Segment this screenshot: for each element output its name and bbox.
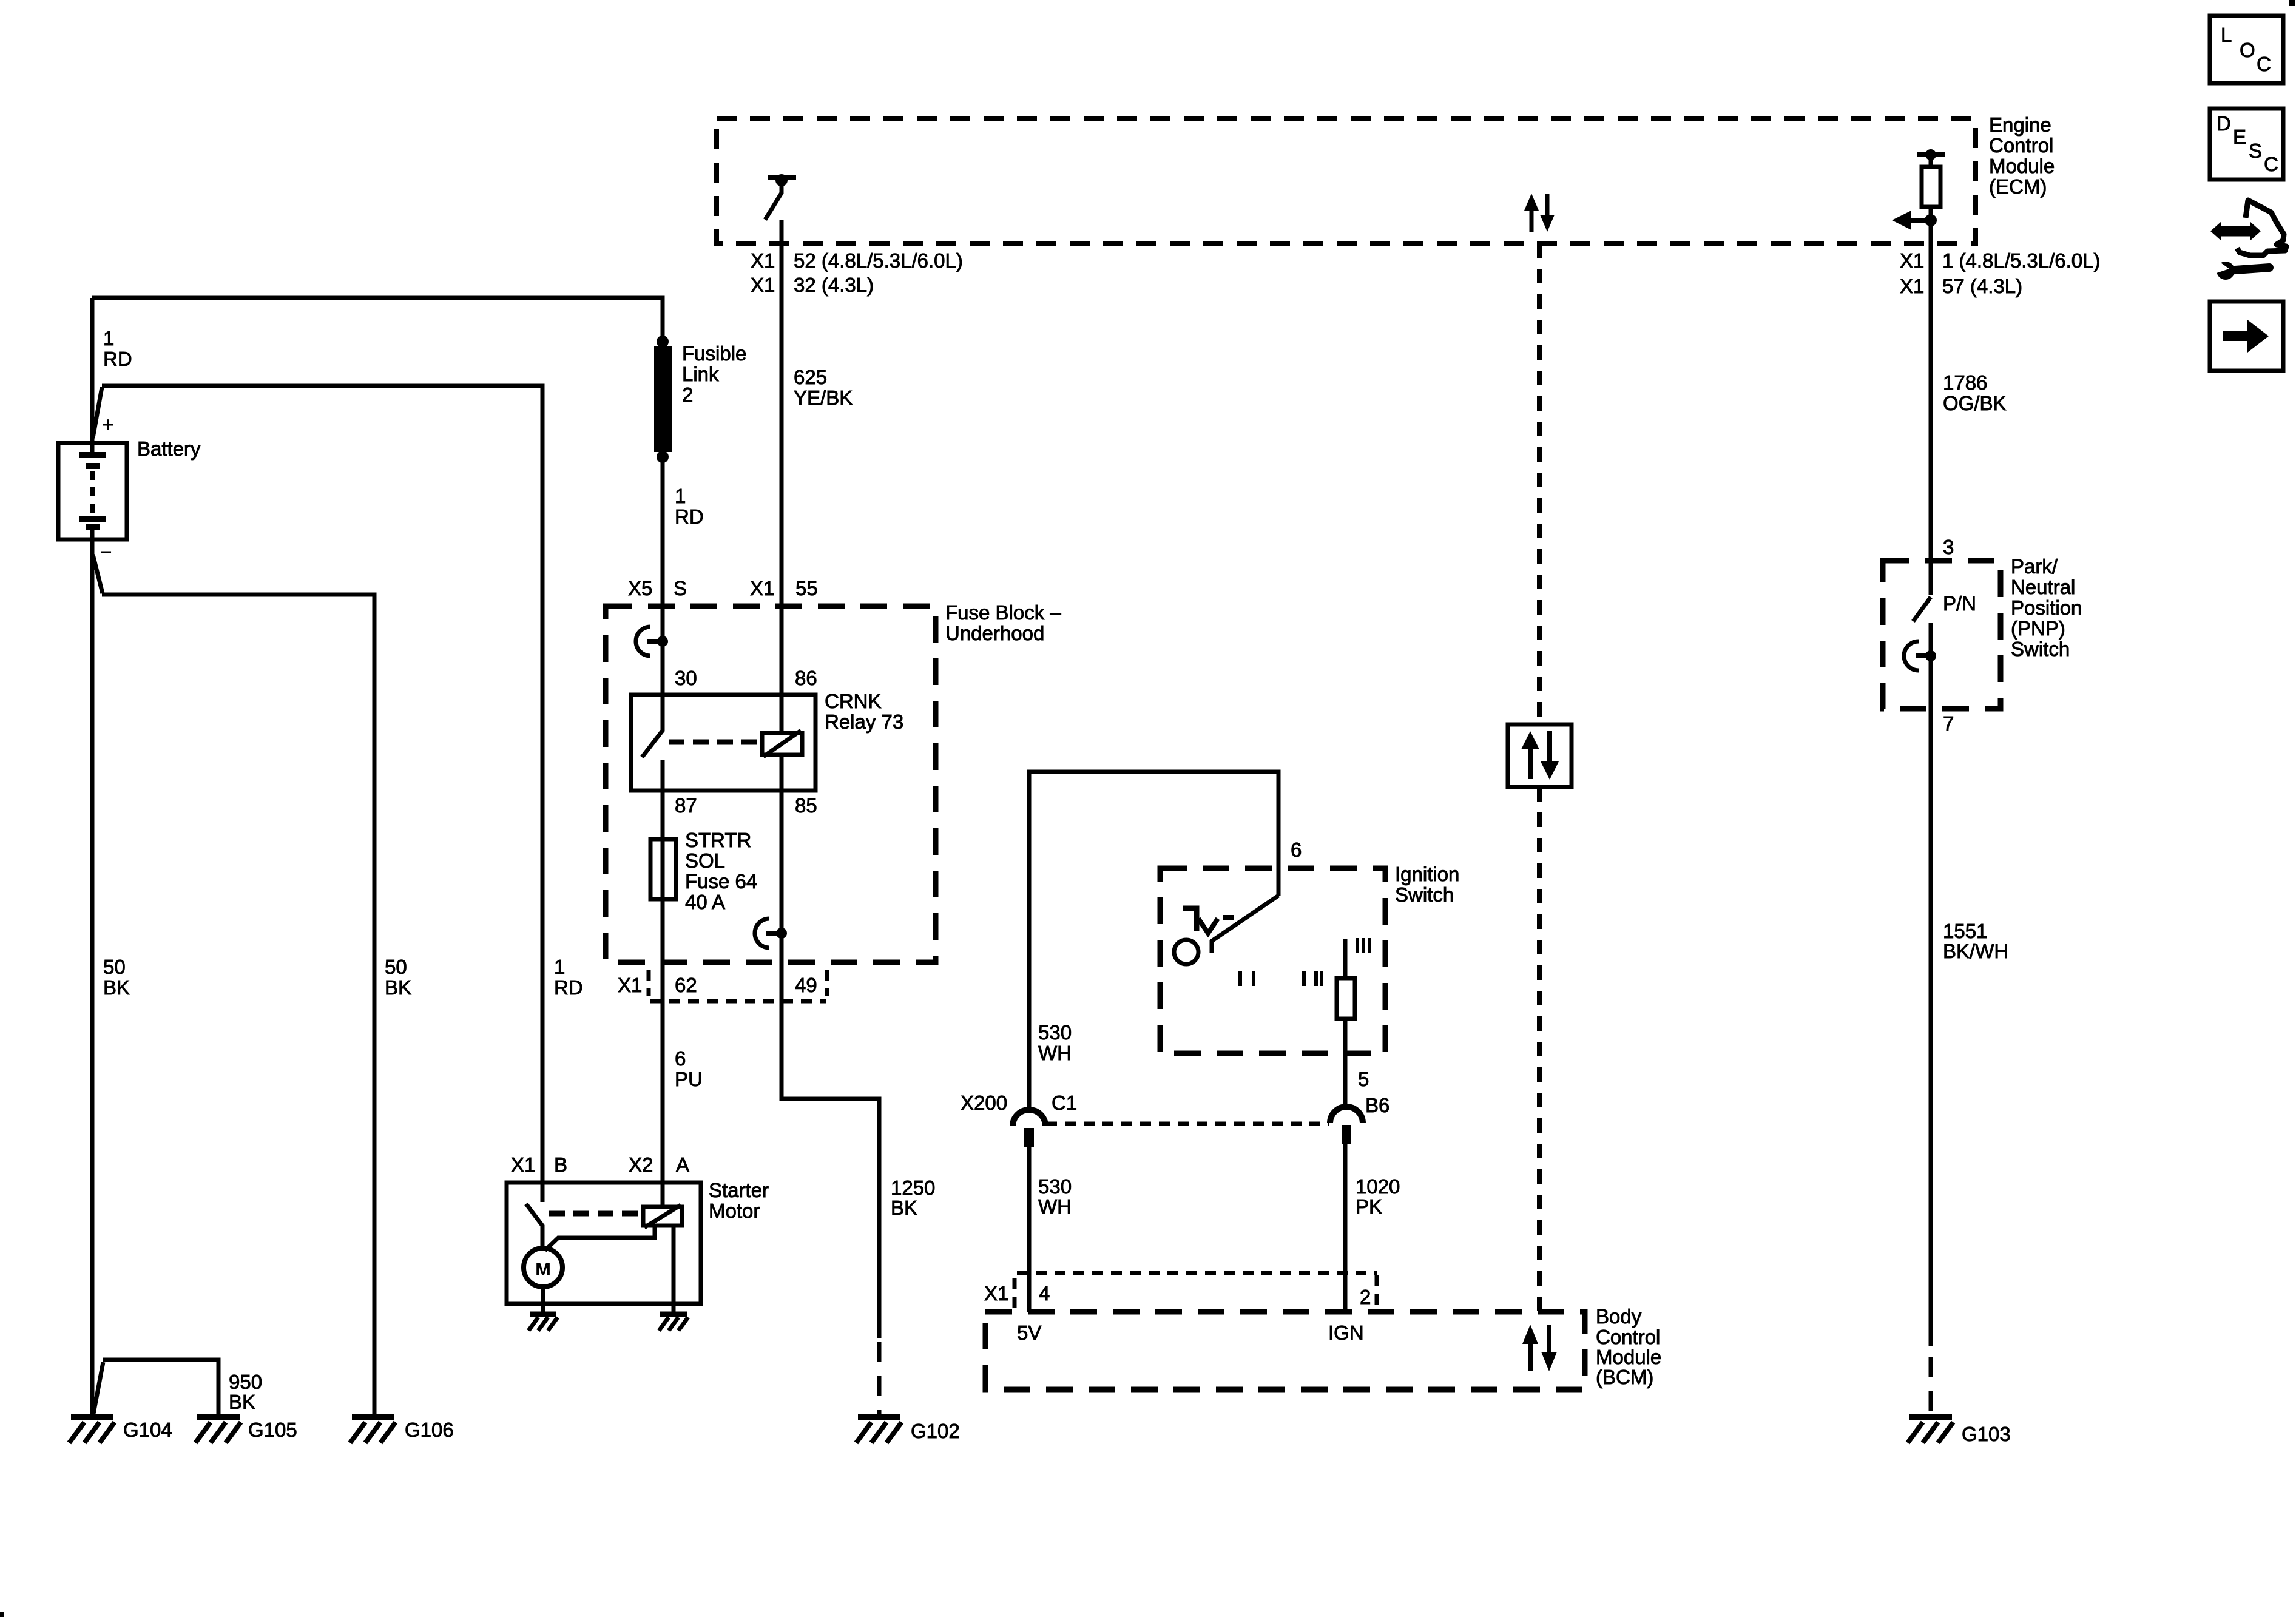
svg-text:5V: 5V (1017, 1322, 1041, 1344)
ECM dashed box (717, 119, 1976, 243)
svg-text:7: 7 (1943, 712, 1954, 735)
svg-text:Fuse 64: Fuse 64 (685, 870, 757, 893)
svg-text:50: 50 (385, 956, 407, 978)
fuse block underhood dashed box (606, 606, 936, 962)
svg-text:X1: X1 (750, 577, 774, 599)
svg-text:5: 5 (1358, 1068, 1369, 1090)
svg-text:86: 86 (795, 667, 817, 689)
svg-text:X5: X5 (628, 577, 652, 599)
svg-text:X1: X1 (984, 1282, 1008, 1305)
PNP switch dashed box (1883, 561, 2001, 709)
X200 dotted connector line (1046, 1122, 1329, 1126)
svg-text:G106: G106 (405, 1419, 454, 1441)
svg-text:1: 1 (554, 956, 565, 978)
svg-text:G102: G102 (911, 1420, 960, 1442)
relay actuator dashed link (669, 740, 760, 745)
connector C1 (1013, 1110, 1045, 1147)
svg-text:PU: PU (675, 1068, 703, 1090)
svg-text:O: O (2240, 39, 2255, 61)
ignition position ticks II (1304, 971, 1322, 986)
svg-text:Relay 73: Relay 73 (825, 711, 903, 733)
svg-text:B6: B6 (1365, 1094, 1389, 1116)
svg-text:OG/BK: OG/BK (1943, 392, 2007, 414)
ECM input arrow (1892, 211, 1937, 230)
serial data dashed line lower (1537, 787, 1542, 1312)
svg-text:30: 30 (675, 667, 697, 689)
svg-text:57 (4.3L): 57 (4.3L) (1942, 275, 2022, 297)
svg-text:C: C (2264, 153, 2278, 175)
svg-text:1020: 1020 (1356, 1175, 1400, 1198)
arrow box arrows (1521, 731, 1559, 780)
fusible link 2 (657, 336, 669, 348)
relay coil (762, 731, 802, 757)
page corner mark top right (2289, 0, 2295, 6)
ground G105 (195, 1417, 241, 1443)
icon DESC box (2210, 109, 2283, 180)
starter motor box (507, 1183, 701, 1304)
svg-text:(BCM): (BCM) (1596, 1366, 1653, 1388)
serial data arrow box (1508, 724, 1572, 787)
svg-text:Neutral: Neutral (2011, 576, 2075, 598)
svg-text:Engine: Engine (1989, 113, 2051, 136)
svg-text:1 (4.8L/5.3L/6.0L): 1 (4.8L/5.3L/6.0L) (1942, 249, 2101, 272)
svg-text:32 (4.3L): 32 (4.3L) (794, 274, 874, 296)
starter actuator dashed link (549, 1211, 640, 1217)
svg-text:STRTR: STRTR (685, 829, 751, 851)
starter solenoid coil (643, 1205, 682, 1227)
svg-text:YE/BK: YE/BK (794, 387, 853, 409)
icon LOC box (2210, 16, 2283, 83)
svg-text:6: 6 (675, 1047, 686, 1070)
svg-text:Module: Module (1989, 155, 2055, 177)
svg-text:1250: 1250 (891, 1176, 935, 1199)
icon wrench (2213, 258, 2269, 280)
svg-text:BK: BK (385, 976, 411, 999)
svg-text:P/N: P/N (1943, 592, 1976, 615)
svg-text:M: M (535, 1258, 551, 1280)
BCM serial data arrows (1522, 1325, 1557, 1371)
ground G102 (856, 1417, 902, 1443)
svg-text:E: E (2233, 126, 2246, 148)
connector hook on 49 wire (755, 919, 787, 948)
svg-text:Fuse Block –: Fuse Block – (945, 601, 1061, 624)
svg-text:G105: G105 (248, 1419, 297, 1441)
svg-text:1: 1 (103, 327, 114, 349)
svg-text:85: 85 (795, 794, 817, 817)
icon harness double arrow (2210, 221, 2261, 241)
svg-text:49: 49 (795, 974, 817, 996)
svg-text:1: 1 (675, 485, 686, 507)
ECM internal crank output switch (765, 174, 796, 220)
PNP switch blade (1913, 597, 1931, 621)
wire: coil to motor link (545, 1226, 655, 1251)
svg-text:CRNK: CRNK (825, 690, 882, 712)
svg-text:Control: Control (1596, 1326, 1660, 1348)
ignition switch dashed box (1160, 868, 1385, 1053)
svg-text:S: S (674, 577, 687, 599)
svg-text:G104: G104 (123, 1419, 172, 1441)
svg-text:Starter: Starter (709, 1179, 769, 1201)
svg-text:X1: X1 (1900, 275, 1924, 297)
ignition position ticks III (1357, 938, 1369, 953)
svg-text:X1: X1 (1900, 249, 1924, 272)
wire: coil to ground (672, 1226, 676, 1314)
icon next arrow box (2210, 302, 2283, 371)
svg-text:4: 4 (1039, 1282, 1050, 1305)
svg-text:Control: Control (1989, 134, 2053, 157)
svg-text:Switch: Switch (1395, 883, 1454, 906)
icon harness outline (2237, 200, 2286, 255)
wire: ignition pin 5 (1343, 1019, 1348, 1104)
PNP hook connector (1904, 641, 1936, 670)
svg-text:WH: WH (1038, 1042, 1072, 1064)
svg-text:Body: Body (1596, 1305, 1642, 1328)
wire: top horizontal feed to fusible link (92, 298, 663, 337)
wire: 625 YE/BK from ECM to fuse block pin 55 (780, 220, 784, 695)
svg-text:B: B (554, 1153, 567, 1176)
svg-text:X1: X1 (751, 274, 775, 296)
svg-text:WH: WH (1038, 1195, 1072, 1218)
svg-text:BK: BK (891, 1197, 917, 1219)
wire: 1786 OG/BK to PNP switch (1929, 220, 1933, 595)
wire: resistor to node (1929, 207, 1933, 220)
ignition switch blade (1212, 896, 1278, 953)
ignition resistor contact (1343, 939, 1348, 978)
wire: 530 WH to BCM pin 4 (1027, 1147, 1032, 1312)
svg-text:PK: PK (1356, 1195, 1382, 1218)
svg-text:A: A (676, 1153, 689, 1176)
wire: battery positive to top feed (90, 298, 95, 441)
svg-text:−: − (100, 541, 112, 563)
svg-text:Fusible: Fusible (682, 342, 746, 365)
BCM connector dotted bracket (1017, 1271, 1377, 1275)
svg-text:X1: X1 (618, 974, 642, 996)
wire: negative branch to G106 (93, 555, 103, 593)
svg-text:(PNP): (PNP) (2011, 617, 2065, 640)
svg-text:C: C (2257, 53, 2271, 75)
wire: relay 85 down through pin 49 (782, 796, 879, 1338)
svg-text:(ECM): (ECM) (1989, 175, 2047, 198)
svg-text:BK: BK (229, 1391, 255, 1413)
svg-text:1786: 1786 (1943, 371, 1987, 394)
svg-text:Position: Position (2011, 596, 2082, 619)
svg-text:87: 87 (675, 794, 697, 817)
svg-text:D: D (2217, 112, 2231, 135)
battery (58, 443, 127, 539)
svg-text:Ignition: Ignition (1395, 863, 1459, 885)
svg-text:Motor: Motor (709, 1200, 760, 1222)
svg-text:3: 3 (1943, 536, 1954, 558)
ground starter motor (528, 1314, 558, 1331)
wire: dashed drop to G103 (1929, 1357, 1933, 1414)
BCM dashed box (985, 1312, 1585, 1389)
ground starter solenoid (659, 1314, 688, 1331)
svg-text:L: L (2221, 24, 2232, 46)
wire: PNP pin 7 down (1929, 623, 1933, 1346)
connector B6 (1330, 1107, 1363, 1144)
ground G106 (350, 1417, 396, 1443)
svg-text:RD: RD (675, 505, 704, 528)
svg-text:1551: 1551 (1943, 920, 1987, 942)
svg-text:X200: X200 (961, 1092, 1007, 1114)
ignition key symbol (1183, 908, 1234, 933)
svg-text:Switch: Switch (2011, 638, 2070, 660)
ignition cylinder circle (1174, 940, 1198, 964)
CRNK relay 73 box (631, 695, 815, 791)
svg-text:RD: RD (103, 348, 132, 370)
svg-text:X2: X2 (629, 1153, 653, 1176)
svg-text:950: 950 (229, 1371, 262, 1393)
svg-text:Underhood: Underhood (945, 622, 1044, 644)
wire: 1020 PK to BCM pin 2 (1343, 1144, 1348, 1312)
svg-text:530: 530 (1038, 1021, 1072, 1044)
svg-text:X1: X1 (511, 1153, 535, 1176)
wire: motor to ground (541, 1287, 545, 1314)
wire: fuse to pin 62 and down to starter A (661, 899, 665, 1183)
ground G104 (69, 1417, 115, 1443)
wire: dashed drop to G102 (877, 1342, 882, 1414)
svg-text:6: 6 (1291, 839, 1302, 861)
svg-text:X1: X1 (751, 249, 775, 272)
serial data dashed line upper (1537, 243, 1542, 724)
svg-text:S: S (2249, 140, 2262, 162)
motor M (524, 1248, 562, 1287)
svg-text:SOL: SOL (685, 849, 725, 872)
svg-text:Link: Link (682, 363, 719, 385)
ECM PNP pullup T-bar (1917, 149, 1945, 167)
svg-text:Module: Module (1596, 1346, 1661, 1368)
svg-text:2: 2 (1360, 1286, 1371, 1308)
svg-text:IGN: IGN (1328, 1322, 1364, 1344)
ground G103 (1908, 1417, 1953, 1443)
relay switch contact (642, 695, 663, 757)
svg-text:RD: RD (554, 976, 583, 999)
page corner mark bottom left (0, 1612, 4, 1617)
wire: battery negative down to G104 (90, 539, 95, 1417)
svg-text:Park/: Park/ (2011, 555, 2058, 578)
ignition position ticks I (1240, 971, 1254, 986)
connector hook on S feed (636, 627, 668, 656)
svg-text:625: 625 (794, 366, 827, 388)
STRTR SOL fuse 64 (650, 839, 676, 899)
svg-text:G103: G103 (1962, 1423, 2011, 1445)
svg-text:Battery: Battery (137, 437, 201, 460)
svg-text:50: 50 (103, 956, 126, 978)
svg-text:530: 530 (1038, 1175, 1072, 1198)
svg-text:+: + (102, 413, 113, 436)
svg-text:BK: BK (103, 976, 130, 999)
svg-text:BK/WH: BK/WH (1943, 940, 2008, 962)
wire: relay 87 to fuse 64 (661, 760, 665, 839)
wire: 950 BK jumper to G105 (93, 1362, 103, 1414)
svg-text:40 A: 40 A (685, 891, 725, 913)
svg-text:55: 55 (795, 577, 818, 599)
svg-text:52 (4.8L/5.3L/6.0L): 52 (4.8L/5.3L/6.0L) (794, 249, 963, 272)
svg-text:62: 62 (675, 974, 697, 996)
svg-text:2: 2 (682, 383, 693, 406)
wire: fusible link to fuse block pin S (661, 457, 665, 695)
wire: relay 86 coil through 85 (780, 695, 784, 733)
wire: 530 WH ignition feed (1029, 772, 1278, 1110)
starter solenoid contact (526, 1204, 542, 1248)
ECM serial data arrows (1524, 194, 1555, 232)
ECM pullup resistor (1922, 167, 1940, 207)
svg-text:C1: C1 (1052, 1092, 1077, 1114)
wire: battery positive branch to starter B (93, 387, 102, 438)
wire: solenoid A pin (661, 1183, 665, 1207)
